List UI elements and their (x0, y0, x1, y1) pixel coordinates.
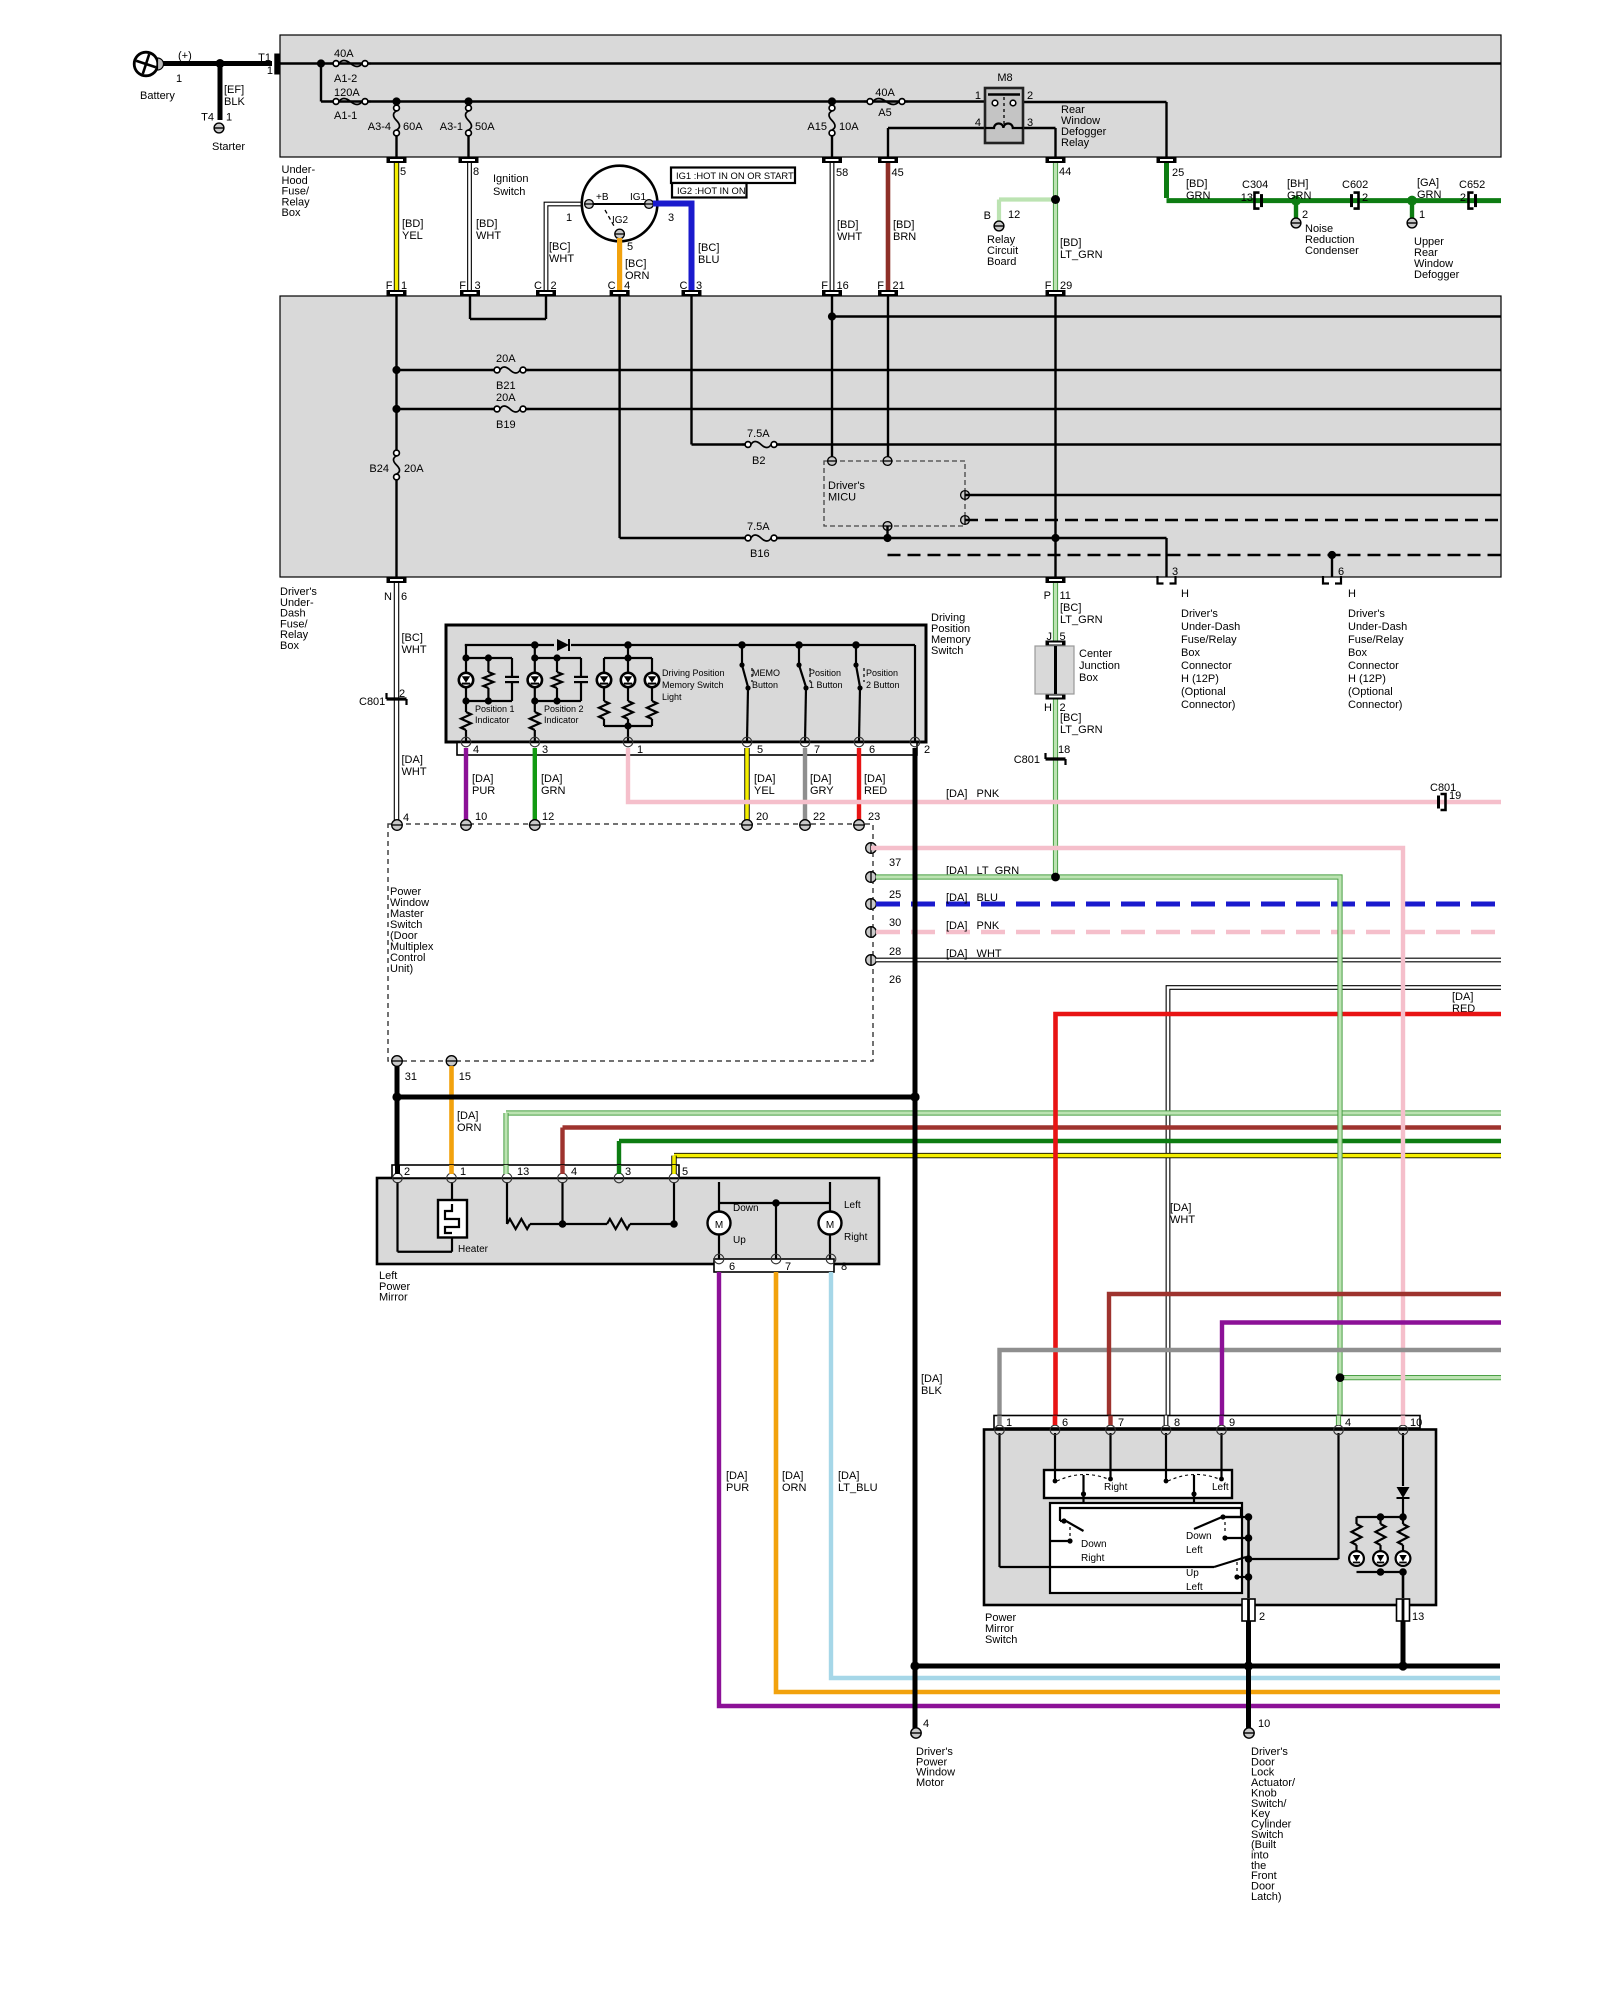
svg-text:10: 10 (475, 811, 487, 823)
svg-text:Down: Down (1186, 1531, 1212, 1542)
svg-text:Indicator: Indicator (544, 715, 579, 725)
svg-text:1 Button: 1 Button (809, 680, 843, 690)
svg-text:Junction: Junction (1079, 660, 1120, 672)
svg-text:[DA] WHT: [DA] WHT (946, 948, 1002, 960)
svg-text:WHT: WHT (1170, 1214, 1195, 1226)
svg-text:Driver's: Driver's (1348, 608, 1385, 620)
svg-text:IG1: IG1 (630, 192, 647, 203)
svg-text:[DA]: [DA] (838, 1470, 859, 1482)
svg-text:[DA]: [DA] (782, 1470, 803, 1482)
svg-text:6: 6 (729, 1261, 735, 1273)
svg-text:10: 10 (1410, 1417, 1422, 1429)
svg-text:[BC]: [BC] (1060, 712, 1081, 724)
svg-text:(Optional: (Optional (1181, 686, 1226, 698)
svg-text:4: 4 (624, 280, 630, 292)
svg-text:2: 2 (404, 1166, 410, 1178)
svg-text:GRN: GRN (1186, 190, 1211, 202)
svg-text:M: M (715, 1220, 723, 1231)
svg-text:M8: M8 (997, 72, 1012, 84)
svg-text:1: 1 (176, 73, 182, 85)
svg-text:MEMO: MEMO (752, 668, 780, 678)
svg-text:5: 5 (627, 241, 633, 253)
svg-text:20A: 20A (496, 353, 516, 365)
svg-text:Heater: Heater (458, 1244, 489, 1255)
svg-text:[DA] BLU: [DA] BLU (946, 892, 998, 904)
svg-text:Switch: Switch (493, 186, 525, 198)
svg-text:H: H (1044, 702, 1052, 714)
svg-text:WHT: WHT (476, 230, 501, 242)
svg-text:58: 58 (836, 167, 848, 179)
svg-text:4: 4 (1345, 1417, 1351, 1429)
svg-text:Motor: Motor (916, 1777, 944, 1789)
svg-text:Connector): Connector) (1181, 699, 1235, 711)
svg-text:Right: Right (1104, 1482, 1128, 1493)
svg-text:A5: A5 (878, 107, 891, 119)
svg-text:Switch: Switch (985, 1634, 1017, 1646)
svg-text:GRY: GRY (810, 785, 834, 797)
svg-text:6: 6 (1062, 1417, 1068, 1429)
svg-text:44: 44 (1059, 166, 1071, 178)
svg-text:Defogger: Defogger (1414, 269, 1460, 281)
svg-text:[DA]: [DA] (754, 773, 775, 785)
svg-text:1: 1 (975, 90, 981, 102)
svg-text:2: 2 (1362, 192, 1368, 204)
svg-text:C801: C801 (1014, 754, 1040, 766)
svg-text:H (12P): H (12P) (1348, 673, 1386, 685)
svg-text:[DA]: [DA] (457, 1110, 478, 1122)
svg-text:13: 13 (517, 1166, 529, 1178)
svg-text:[BC]: [BC] (698, 242, 719, 254)
svg-text:[DA] PNK: [DA] PNK (946, 920, 1000, 932)
svg-text:C602: C602 (1342, 179, 1368, 191)
svg-text:15: 15 (459, 1071, 471, 1083)
svg-text:Left: Left (844, 1200, 861, 1211)
svg-text:[BD]: [BD] (402, 218, 423, 230)
svg-text:2: 2 (1460, 192, 1466, 204)
svg-text:IG2 :HOT IN ON: IG2 :HOT IN ON (677, 185, 746, 196)
svg-text:LT_GRN: LT_GRN (1060, 249, 1103, 261)
svg-text:18: 18 (1058, 744, 1070, 756)
svg-text:13: 13 (1412, 1611, 1424, 1623)
svg-text:[BD]: [BD] (1186, 178, 1207, 190)
svg-text:WHT: WHT (402, 644, 427, 656)
svg-text:B21: B21 (496, 380, 516, 392)
svg-text:23: 23 (868, 811, 880, 823)
svg-text:7.5A: 7.5A (747, 428, 770, 440)
svg-text:[BC]: [BC] (625, 258, 646, 270)
svg-text:5: 5 (682, 1166, 688, 1178)
svg-text:GRN: GRN (1287, 190, 1312, 202)
svg-text:F: F (821, 280, 828, 292)
svg-text:2: 2 (1302, 209, 1308, 221)
svg-text:21: 21 (893, 280, 905, 292)
svg-text:M: M (826, 1220, 834, 1231)
svg-text:BLK: BLK (224, 96, 245, 108)
svg-text:H: H (1348, 588, 1356, 600)
svg-text:GRN: GRN (541, 785, 566, 797)
svg-text:31: 31 (405, 1071, 417, 1083)
svg-text:IG2: IG2 (612, 215, 629, 226)
svg-text:4: 4 (975, 117, 981, 129)
svg-text:Right: Right (844, 1232, 868, 1243)
svg-text:Down: Down (1081, 1539, 1107, 1550)
svg-text:Board: Board (987, 256, 1016, 268)
svg-text:Unit): Unit) (390, 963, 413, 975)
svg-text:J: J (1047, 631, 1053, 643)
svg-text:20A: 20A (404, 463, 424, 475)
svg-text:Box: Box (280, 640, 299, 652)
svg-text:B16: B16 (750, 548, 770, 560)
svg-text:IG1 :HOT IN ON OR START: IG1 :HOT IN ON OR START (676, 170, 794, 181)
svg-text:B24: B24 (369, 463, 389, 475)
svg-text:C: C (608, 280, 616, 292)
svg-text:H (12P): H (12P) (1181, 673, 1219, 685)
svg-text:19: 19 (1449, 790, 1461, 802)
svg-text:Left: Left (1186, 1545, 1203, 1556)
svg-text:MICU: MICU (828, 492, 856, 504)
svg-text:37: 37 (889, 857, 901, 869)
svg-text:Light: Light (662, 692, 682, 702)
svg-text:7: 7 (785, 1261, 791, 1273)
svg-text:8: 8 (473, 166, 479, 178)
svg-text:Mirror: Mirror (379, 1292, 408, 1304)
svg-text:LT_GRN: LT_GRN (1060, 614, 1103, 626)
svg-text:2: 2 (551, 280, 557, 292)
svg-text:+B: +B (596, 192, 609, 203)
svg-text:C801: C801 (359, 696, 385, 708)
svg-text:T4: T4 (201, 112, 214, 124)
svg-text:4: 4 (571, 1166, 577, 1178)
svg-text:30: 30 (889, 917, 901, 929)
svg-text:1: 1 (267, 65, 273, 77)
svg-text:Memory Switch: Memory Switch (662, 680, 724, 690)
svg-text:Position: Position (809, 668, 841, 678)
svg-text:6: 6 (869, 744, 875, 756)
svg-text:Switch: Switch (931, 645, 963, 657)
svg-text:9: 9 (1229, 1417, 1235, 1429)
svg-text:29: 29 (1060, 280, 1072, 292)
svg-text:Box: Box (1079, 672, 1098, 684)
svg-text:50A: 50A (475, 121, 495, 133)
svg-text:Position 2: Position 2 (544, 704, 584, 714)
svg-text:16: 16 (837, 280, 849, 292)
svg-text:A1-2: A1-2 (334, 73, 357, 85)
svg-text:3: 3 (696, 280, 702, 292)
svg-text:7: 7 (1118, 1417, 1124, 1429)
svg-text:3: 3 (1027, 117, 1033, 129)
svg-text:PUR: PUR (472, 785, 495, 797)
svg-text:7.5A: 7.5A (747, 521, 770, 533)
svg-text:Latch): Latch) (1251, 1891, 1282, 1903)
svg-text:Under-Dash: Under-Dash (1181, 621, 1240, 633)
svg-text:5: 5 (400, 166, 406, 178)
svg-text:Driving Position: Driving Position (662, 668, 725, 678)
svg-text:Box: Box (1181, 647, 1200, 659)
svg-text:28: 28 (889, 946, 901, 958)
svg-text:F: F (459, 280, 466, 292)
svg-text:P: P (1044, 590, 1051, 602)
svg-text:2: 2 (1027, 90, 1033, 102)
svg-text:1: 1 (1006, 1417, 1012, 1429)
svg-text:[BD]: [BD] (837, 219, 858, 231)
svg-text:C: C (680, 280, 688, 292)
svg-text:3: 3 (542, 744, 548, 756)
svg-text:Condenser: Condenser (1305, 245, 1359, 257)
svg-text:Position: Position (866, 668, 898, 678)
svg-text:RED: RED (864, 785, 887, 797)
svg-text:26: 26 (889, 974, 901, 986)
svg-text:[BD]: [BD] (1060, 237, 1081, 249)
svg-text:WHT: WHT (549, 253, 574, 265)
svg-text:Position 1: Position 1 (475, 704, 515, 714)
svg-text:F: F (386, 280, 393, 292)
svg-text:Connector): Connector) (1348, 699, 1402, 711)
svg-text:[DA]: [DA] (472, 773, 493, 785)
svg-text:Indicator: Indicator (475, 715, 510, 725)
svg-text:A3-1: A3-1 (440, 121, 463, 133)
svg-text:12: 12 (542, 811, 554, 823)
svg-text:8: 8 (1174, 1417, 1180, 1429)
svg-text:WHT: WHT (837, 231, 862, 243)
svg-text:Driver's: Driver's (1181, 608, 1218, 620)
svg-text:Up: Up (1186, 1568, 1199, 1579)
svg-text:120A: 120A (334, 87, 360, 99)
svg-text:Up: Up (733, 1235, 746, 1246)
svg-text:Connector: Connector (1348, 660, 1399, 672)
svg-text:BLK: BLK (921, 1385, 942, 1397)
svg-text:A1-1: A1-1 (334, 110, 357, 122)
svg-text:20: 20 (756, 811, 768, 823)
svg-text:[DA]: [DA] (402, 754, 423, 766)
svg-text:ORN: ORN (782, 1482, 807, 1494)
svg-text:Fuse/Relay: Fuse/Relay (1348, 634, 1404, 646)
svg-text:4: 4 (403, 812, 409, 824)
svg-text:1: 1 (566, 212, 572, 224)
svg-text:2: 2 (1259, 1611, 1265, 1623)
svg-text:C: C (534, 280, 542, 292)
svg-text:B19: B19 (496, 419, 516, 431)
svg-text:12: 12 (1008, 209, 1020, 221)
svg-text:Under-Dash: Under-Dash (1348, 621, 1407, 633)
svg-text:B2: B2 (752, 455, 765, 467)
svg-text:[BH]: [BH] (1287, 178, 1308, 190)
svg-text:Fuse/Relay: Fuse/Relay (1181, 634, 1237, 646)
svg-text:F: F (877, 280, 884, 292)
svg-text:13: 13 (1241, 192, 1253, 204)
svg-text:(Optional: (Optional (1348, 686, 1393, 698)
svg-text:(+): (+) (178, 50, 192, 62)
svg-text:1: 1 (460, 1166, 466, 1178)
svg-text:3: 3 (1172, 566, 1178, 578)
svg-text:25: 25 (1172, 167, 1184, 179)
svg-text:LT_GRN: LT_GRN (1060, 724, 1103, 736)
svg-text:[BC]: [BC] (549, 241, 570, 253)
svg-text:Starter: Starter (212, 141, 245, 153)
svg-text:YEL: YEL (402, 230, 423, 242)
svg-text:F: F (1045, 280, 1052, 292)
svg-text:4: 4 (923, 1718, 929, 1730)
svg-text:11: 11 (1060, 590, 1071, 602)
svg-text:Battery: Battery (140, 90, 175, 102)
svg-text:7: 7 (814, 744, 820, 756)
svg-text:N: N (384, 591, 392, 603)
svg-text:2: 2 (924, 744, 930, 756)
svg-text:[DA] PNK: [DA] PNK (946, 788, 1000, 800)
svg-text:Left: Left (1186, 1582, 1203, 1593)
svg-text:Driver's: Driver's (828, 480, 865, 492)
svg-text:[BC]: [BC] (402, 632, 423, 644)
svg-text:20A: 20A (496, 392, 516, 404)
svg-text:45: 45 (892, 167, 904, 179)
svg-text:Connector: Connector (1181, 660, 1232, 672)
svg-text:[DA]: [DA] (726, 1470, 747, 1482)
svg-text:22: 22 (813, 811, 825, 823)
svg-text:40A: 40A (334, 48, 354, 60)
svg-text:T1: T1 (258, 52, 271, 64)
svg-text:[DA]: [DA] (1170, 1202, 1191, 1214)
svg-text:6: 6 (1338, 566, 1344, 578)
svg-text:10A: 10A (839, 121, 859, 133)
svg-text:40A: 40A (875, 87, 895, 99)
svg-text:BRN: BRN (893, 231, 916, 243)
svg-text:B: B (984, 210, 991, 222)
svg-text:H: H (1181, 588, 1189, 600)
svg-text:Right: Right (1081, 1553, 1105, 1564)
svg-text:Left: Left (1212, 1482, 1229, 1493)
svg-text:[EF]: [EF] (224, 84, 244, 96)
svg-text:[BC]: [BC] (1060, 602, 1081, 614)
svg-text:Button: Button (752, 680, 778, 690)
svg-text:A15: A15 (807, 121, 827, 133)
svg-text:60A: 60A (403, 121, 423, 133)
svg-text:[BD]: [BD] (476, 218, 497, 230)
svg-text:[DA]: [DA] (864, 773, 885, 785)
svg-text:PUR: PUR (726, 1482, 749, 1494)
svg-text:8: 8 (841, 1261, 847, 1273)
svg-text:5: 5 (757, 744, 763, 756)
svg-text:WHT: WHT (402, 766, 427, 778)
svg-text:1: 1 (226, 112, 232, 124)
svg-text:Ignition: Ignition (493, 173, 528, 185)
svg-text:10: 10 (1258, 1718, 1270, 1730)
svg-text:LT_BLU: LT_BLU (838, 1482, 878, 1494)
svg-text:4: 4 (473, 744, 479, 756)
svg-text:2 Button: 2 Button (866, 680, 900, 690)
svg-text:C652: C652 (1459, 179, 1485, 191)
svg-text:Box: Box (282, 207, 301, 219)
svg-text:5: 5 (1060, 631, 1066, 643)
svg-text:[DA]: [DA] (1452, 991, 1473, 1003)
svg-text:6: 6 (401, 591, 407, 603)
svg-text:YEL: YEL (754, 785, 775, 797)
svg-text:C304: C304 (1242, 179, 1268, 191)
svg-text:Center: Center (1079, 648, 1112, 660)
svg-text:GRN: GRN (1417, 189, 1442, 201)
svg-text:Box: Box (1348, 647, 1367, 659)
svg-text:3: 3 (625, 1166, 631, 1178)
svg-text:3: 3 (668, 212, 674, 224)
svg-text:ORN: ORN (457, 1122, 482, 1134)
svg-text:1: 1 (637, 744, 643, 756)
svg-text:Relay: Relay (1061, 137, 1090, 149)
svg-text:[DA]: [DA] (921, 1373, 942, 1385)
svg-text:Down: Down (733, 1203, 759, 1214)
svg-text:[BD]: [BD] (893, 219, 914, 231)
svg-text:[DA]: [DA] (541, 773, 562, 785)
svg-text:[GA]: [GA] (1417, 177, 1439, 189)
svg-text:BLU: BLU (698, 254, 719, 266)
svg-text:25: 25 (889, 889, 901, 901)
svg-text:[DA]: [DA] (810, 773, 831, 785)
svg-text:3: 3 (475, 280, 481, 292)
svg-text:1: 1 (1419, 209, 1425, 221)
svg-text:A3-4: A3-4 (368, 121, 391, 133)
svg-text:1: 1 (401, 280, 407, 292)
